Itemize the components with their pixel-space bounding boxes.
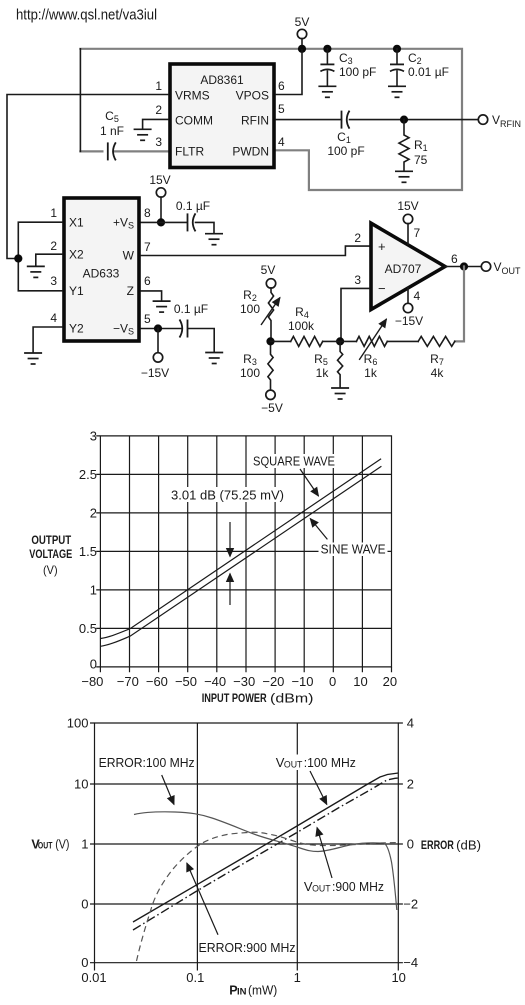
svg-text:ERROR:900 MHz: ERROR:900 MHz bbox=[199, 940, 296, 955]
svg-text:R4: R4 bbox=[295, 305, 309, 320]
svg-text:C1: C1 bbox=[337, 130, 351, 145]
svg-text:100: 100 bbox=[67, 716, 89, 731]
svg-text:Y2: Y2 bbox=[69, 322, 84, 336]
svg-text:5: 5 bbox=[144, 312, 151, 326]
svg-text:Z: Z bbox=[127, 284, 134, 298]
svg-text:R7: R7 bbox=[430, 352, 444, 367]
svg-text:Y1: Y1 bbox=[69, 284, 84, 298]
svg-text:http://www.qsl.net/va3iul: http://www.qsl.net/va3iul bbox=[16, 8, 157, 24]
svg-text:SINE WAVE: SINE WAVE bbox=[321, 543, 386, 557]
svg-text:R2: R2 bbox=[243, 288, 257, 303]
svg-text:8: 8 bbox=[144, 206, 151, 220]
svg-text:10: 10 bbox=[391, 970, 405, 985]
svg-text:2: 2 bbox=[50, 239, 57, 253]
svg-text:AD633: AD633 bbox=[83, 267, 120, 281]
svg-text:3: 3 bbox=[90, 429, 97, 444]
svg-text:VRMS: VRMS bbox=[175, 89, 210, 103]
svg-text::900 MHz: :900 MHz bbox=[332, 879, 384, 894]
svg-text:(mW): (mW) bbox=[248, 983, 277, 997]
svg-text:1 nF: 1 nF bbox=[100, 124, 124, 138]
svg-text:0: 0 bbox=[90, 657, 97, 672]
svg-text:2: 2 bbox=[155, 103, 162, 117]
svg-text:0.1 µF: 0.1 µF bbox=[176, 199, 210, 213]
svg-text:5: 5 bbox=[278, 102, 285, 116]
svg-text:ERROR:100 MHz: ERROR:100 MHz bbox=[99, 755, 195, 770]
svg-text:100 pF: 100 pF bbox=[339, 65, 376, 79]
svg-text:OUTPUT: OUTPUT bbox=[31, 535, 71, 547]
svg-text:6: 6 bbox=[278, 79, 285, 93]
svg-text:6: 6 bbox=[144, 274, 151, 288]
svg-text:FLTR: FLTR bbox=[175, 145, 204, 159]
svg-text:0: 0 bbox=[81, 955, 88, 970]
svg-text:4: 4 bbox=[407, 716, 414, 731]
svg-text:SQUARE WAVE: SQUARE WAVE bbox=[253, 455, 335, 469]
svg-text:R5: R5 bbox=[314, 352, 328, 367]
svg-text:100 pF: 100 pF bbox=[327, 144, 364, 158]
svg-text:VRFIN: VRFIN bbox=[492, 113, 521, 129]
svg-text:W: W bbox=[123, 249, 135, 263]
svg-text:(dB): (dB) bbox=[456, 837, 481, 852]
svg-text:PWDN: PWDN bbox=[232, 145, 269, 159]
svg-text:10: 10 bbox=[74, 777, 88, 792]
svg-text:R6: R6 bbox=[364, 352, 378, 367]
svg-text:−40: −40 bbox=[204, 674, 226, 689]
svg-text:0: 0 bbox=[81, 897, 88, 912]
svg-text:6: 6 bbox=[451, 252, 458, 266]
svg-text:3: 3 bbox=[155, 135, 162, 149]
svg-text:−: − bbox=[378, 281, 386, 296]
svg-text:−4: −4 bbox=[403, 955, 418, 970]
svg-text:3.01 dB (75.25 mV): 3.01 dB (75.25 mV) bbox=[171, 489, 284, 503]
svg-text:0.5: 0.5 bbox=[79, 621, 97, 636]
svg-text:1: 1 bbox=[155, 79, 162, 93]
svg-text:0.1 µF: 0.1 µF bbox=[174, 302, 208, 316]
svg-text:OUT: OUT bbox=[312, 884, 331, 895]
svg-text:C2: C2 bbox=[408, 51, 422, 66]
svg-text:−30: −30 bbox=[233, 674, 255, 689]
svg-text:R1: R1 bbox=[414, 138, 428, 153]
svg-text:7: 7 bbox=[414, 226, 421, 240]
svg-text:7: 7 bbox=[144, 240, 151, 254]
svg-text:0.01 µF: 0.01 µF bbox=[408, 65, 449, 79]
svg-text:1k: 1k bbox=[316, 366, 330, 380]
svg-text:−60: −60 bbox=[146, 674, 168, 689]
svg-text:VPOS: VPOS bbox=[236, 89, 269, 103]
svg-text:1: 1 bbox=[50, 206, 57, 220]
svg-text:2.5: 2.5 bbox=[79, 467, 97, 482]
svg-text:+: + bbox=[378, 239, 386, 254]
svg-text:ERROR: ERROR bbox=[421, 838, 454, 852]
svg-text:−15V: −15V bbox=[395, 314, 423, 328]
svg-text:1: 1 bbox=[90, 583, 97, 598]
svg-text:5V: 5V bbox=[261, 263, 276, 277]
svg-text:IN: IN bbox=[237, 987, 247, 997]
svg-text:−80: −80 bbox=[81, 674, 103, 689]
svg-text:4: 4 bbox=[414, 289, 421, 303]
svg-text:100k: 100k bbox=[288, 319, 315, 333]
svg-text:AD8361: AD8361 bbox=[200, 73, 244, 87]
svg-text:OUT: OUT bbox=[38, 841, 53, 851]
svg-text:5V: 5V bbox=[295, 15, 310, 29]
svg-text:AD707: AD707 bbox=[385, 262, 422, 276]
svg-text:X1: X1 bbox=[69, 216, 84, 230]
svg-text:20: 20 bbox=[383, 674, 397, 689]
svg-text:0: 0 bbox=[407, 837, 414, 852]
svg-text:RFIN: RFIN bbox=[241, 114, 269, 128]
svg-text:C5: C5 bbox=[105, 109, 119, 124]
svg-text:0.1: 0.1 bbox=[186, 970, 204, 985]
svg-text:X2: X2 bbox=[69, 248, 84, 262]
svg-text:−2: −2 bbox=[403, 897, 418, 912]
svg-text:−5V: −5V bbox=[261, 401, 283, 415]
svg-text:2: 2 bbox=[407, 777, 414, 792]
svg-text:C3: C3 bbox=[339, 51, 353, 66]
svg-text:4: 4 bbox=[50, 311, 57, 325]
svg-text:INPUT POWER: INPUT POWER bbox=[202, 693, 268, 705]
svg-text:1: 1 bbox=[294, 970, 301, 985]
svg-text:VOUT: VOUT bbox=[494, 260, 522, 276]
svg-text:75: 75 bbox=[414, 153, 428, 167]
svg-text:100: 100 bbox=[240, 302, 260, 316]
svg-text:(dBm): (dBm) bbox=[270, 692, 314, 706]
svg-text:COMM: COMM bbox=[175, 114, 213, 128]
svg-text:15V: 15V bbox=[149, 173, 170, 187]
svg-text:−15V: −15V bbox=[141, 366, 169, 380]
svg-text:1.5: 1.5 bbox=[79, 544, 97, 559]
svg-text:R3: R3 bbox=[243, 352, 257, 367]
svg-text:OUT: OUT bbox=[284, 760, 303, 771]
svg-text:2: 2 bbox=[90, 506, 97, 521]
svg-text:−20: −20 bbox=[262, 674, 284, 689]
svg-text:VOLTAGE: VOLTAGE bbox=[29, 549, 72, 561]
svg-text:1k: 1k bbox=[364, 366, 378, 380]
svg-text:3: 3 bbox=[50, 274, 57, 288]
svg-text:−70: −70 bbox=[117, 674, 139, 689]
svg-text:(V): (V) bbox=[43, 563, 58, 577]
svg-text:4k: 4k bbox=[431, 366, 445, 380]
svg-text::100 MHz: :100 MHz bbox=[304, 755, 356, 770]
svg-text:0.01: 0.01 bbox=[81, 970, 106, 985]
svg-text:(V): (V) bbox=[55, 838, 69, 852]
svg-text:15V: 15V bbox=[397, 199, 418, 213]
svg-text:10: 10 bbox=[353, 674, 367, 689]
svg-text:2: 2 bbox=[354, 231, 361, 245]
svg-text:−50: −50 bbox=[175, 674, 197, 689]
svg-text:1: 1 bbox=[81, 837, 88, 852]
svg-text:4: 4 bbox=[278, 135, 285, 149]
svg-text:0: 0 bbox=[329, 674, 336, 689]
svg-text:−10: −10 bbox=[291, 674, 313, 689]
svg-text:100: 100 bbox=[240, 366, 260, 380]
svg-text:3: 3 bbox=[354, 273, 361, 287]
